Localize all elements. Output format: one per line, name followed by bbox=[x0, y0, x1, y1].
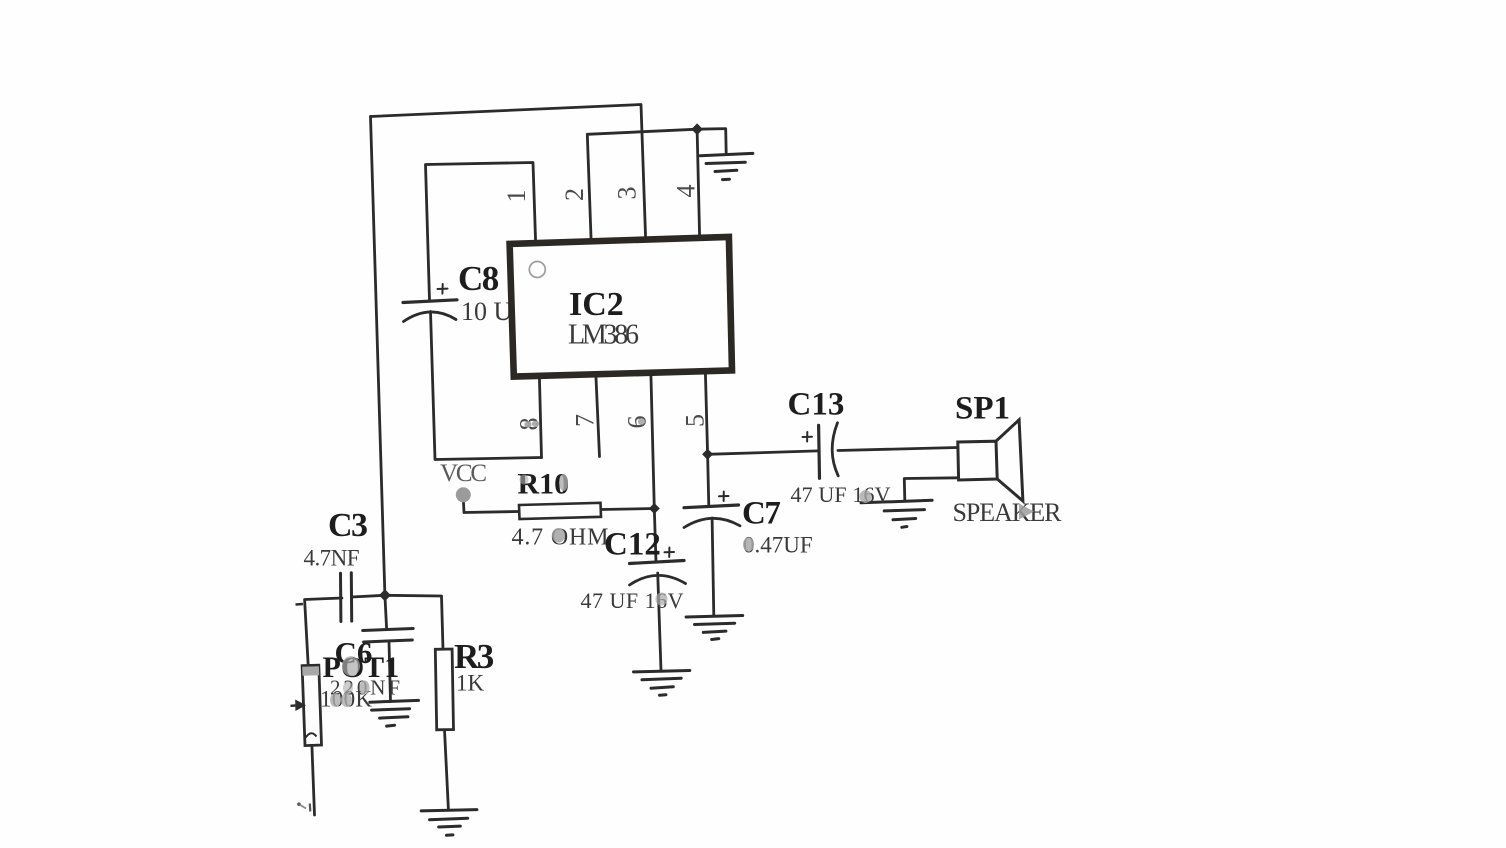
svg-text:2: 2 bbox=[560, 188, 589, 201]
ground G4 (speaker) bbox=[861, 500, 932, 527]
wire C3 node to R3 bbox=[385, 595, 443, 649]
node VCC dot bbox=[456, 487, 471, 502]
scan artifact gray disk on 0.47UF zero bbox=[743, 538, 754, 552]
svg-text:C12: C12 bbox=[604, 527, 661, 563]
scan artifact gray disks on 220NF digits bbox=[343, 682, 353, 695]
node junction top (pins 2/4/gnd) bbox=[691, 123, 703, 135]
svg-text:7: 7 bbox=[570, 414, 599, 427]
wire junction to ground G1 bbox=[697, 129, 726, 155]
node junction R10/pin6 bbox=[649, 503, 660, 514]
capacitor C13 bbox=[803, 423, 839, 479]
wire C13 to speaker bbox=[838, 448, 957, 451]
wire R3 bottom lead bbox=[445, 730, 449, 810]
wire C8 bottom to pin8 bbox=[431, 312, 542, 460]
scan artifact gray disk on POT1 O bbox=[342, 656, 360, 676]
ground G5 (C6) bbox=[370, 700, 419, 726]
ground G3 (C7) bbox=[686, 616, 743, 640]
svg-text:47 UF 16V: 47 UF 16V bbox=[581, 588, 684, 613]
ground G6 (R3) bbox=[421, 810, 477, 836]
resistor R10 bbox=[519, 503, 601, 519]
wire pin8 bbox=[539, 377, 541, 457]
svg-text:LM386: LM386 bbox=[568, 320, 639, 351]
minus tick at C3 left bbox=[296, 603, 304, 606]
wire C7 to ground G3 bbox=[712, 518, 714, 616]
node junction pin5/C7/C13 bbox=[702, 449, 713, 460]
svg-text:SP1: SP1 bbox=[955, 391, 1010, 427]
svg-text:1: 1 bbox=[502, 190, 531, 203]
svg-text:POT1: POT1 bbox=[323, 651, 400, 684]
IC U-box IC2 bbox=[510, 237, 732, 377]
potentiometer POT1 bbox=[302, 665, 321, 745]
wire node to C6 bbox=[385, 595, 387, 628]
svg-text:6: 6 bbox=[622, 416, 651, 429]
svg-text:IC2: IC2 bbox=[569, 286, 624, 323]
svg-text:5: 5 bbox=[680, 414, 709, 427]
svg-text:47 UF 16V: 47 UF 16V bbox=[791, 482, 891, 507]
svg-text:C3: C3 bbox=[328, 507, 367, 544]
svg-text:C7: C7 bbox=[742, 496, 780, 532]
wire pin3 top loop bbox=[371, 105, 646, 239]
capacitor C6 bbox=[363, 629, 414, 643]
wire VCC to R10 bbox=[464, 503, 520, 513]
wire R10 to pin6 junction bbox=[601, 509, 655, 510]
IC2 pin1 indicator circle bbox=[529, 262, 545, 278]
wire C3 left plate to POT1 bbox=[305, 598, 342, 666]
wire C6 to ground G5 bbox=[389, 642, 391, 702]
ground G2 (C12) bbox=[634, 671, 690, 696]
scan artifact gray fill on pin digit 6 bbox=[638, 418, 645, 425]
scan artifact gray fills on R10 glyphs bbox=[559, 474, 568, 491]
speaker SP1 bbox=[958, 420, 1023, 501]
scan artifact gray dot on 16V (C13 value) bbox=[860, 490, 872, 503]
POT1 gray band bbox=[302, 666, 319, 676]
resistor R3 bbox=[435, 649, 453, 730]
svg-text:VCC: VCC bbox=[440, 460, 487, 487]
wire pin1 to C8 bbox=[426, 163, 536, 301]
scan artifact gray dot on 16V (C12 value) bbox=[656, 593, 668, 606]
scan artifact gray disk on OHM O bbox=[552, 528, 565, 543]
svg-text:3: 3 bbox=[612, 187, 641, 200]
wire pin7 stub bbox=[596, 376, 600, 457]
svg-text:C8: C8 bbox=[458, 259, 499, 298]
ground G1 (pins 2/4) bbox=[700, 153, 753, 179]
node junction C3/C6/R3 bbox=[379, 589, 391, 601]
wire long left line to C3 node bbox=[371, 117, 385, 596]
capacitor C7 bbox=[684, 492, 740, 528]
capacitor C8 bbox=[403, 284, 457, 322]
wire pin2 to top junction bbox=[587, 129, 697, 240]
scan artifact gray fills on pin digit 8 bbox=[524, 421, 531, 427]
wire POT1 bottom lead bbox=[312, 745, 315, 815]
POT1 inner squiggle bbox=[306, 733, 317, 737]
wire pin6 to C12 bbox=[651, 374, 656, 562]
wire node5 to C13 bbox=[708, 451, 818, 454]
wire speaker return to ground G4 bbox=[904, 478, 958, 501]
svg-text:4.7NF: 4.7NF bbox=[304, 546, 360, 571]
squiggle artifact bottom-left bbox=[297, 802, 301, 806]
wire C12 to ground G2 bbox=[658, 573, 661, 671]
scan artifact gray disks on 100K zeros bbox=[330, 693, 341, 707]
wire pin4 from junction bbox=[697, 129, 700, 236]
speaker label gray mark bbox=[1019, 504, 1034, 520]
capacitor C12 bbox=[630, 548, 686, 586]
svg-text:1K: 1K bbox=[456, 671, 485, 696]
capacitor C3 bbox=[341, 573, 352, 622]
POT1 wiper arrow bbox=[295, 700, 306, 712]
svg-text:4: 4 bbox=[671, 185, 700, 198]
wire C3 right plate to node bbox=[352, 595, 385, 597]
svg-text:C13: C13 bbox=[788, 387, 845, 423]
svg-text:SPEAKER: SPEAKER bbox=[953, 498, 1063, 527]
wire pin5 to C7 bbox=[705, 373, 708, 507]
